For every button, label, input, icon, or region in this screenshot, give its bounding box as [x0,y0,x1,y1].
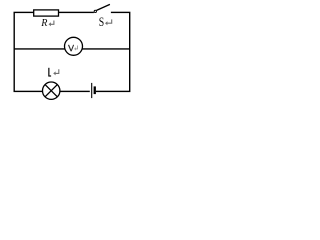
resistor R [34,10,59,16]
voltmeter V [65,37,83,55]
return mark in voltmeter [76,46,78,49]
lamp X stroke 1 [45,84,58,97]
return arrowhead after S [105,21,107,25]
svg-text:R: R [40,18,48,29]
return arrowhead in voltmeter [74,47,76,50]
return mark after R [50,21,54,25]
label L stem [48,68,50,77]
switch S pivot [94,10,96,12]
return arrowhead after R [49,22,51,26]
wire outer circuit loop [14,12,130,91]
lamp L [43,82,60,99]
wire middle branch (voltmeter branch) [14,48,130,50]
battery short plate [94,86,96,94]
return arrowhead after L [53,71,55,75]
battery gap white-out [90,90,96,92]
return mark after L [55,69,59,73]
label V stroke 2 [71,45,73,51]
svg-text:S: S [99,16,104,29]
switch S blade [97,4,110,10]
label L foot [49,75,52,77]
battery long plate [91,83,93,98]
switch gap white-out [94,11,111,14]
label V stroke 1 [69,45,72,51]
lamp X stroke 2 [45,84,58,97]
return mark after S [107,19,112,23]
